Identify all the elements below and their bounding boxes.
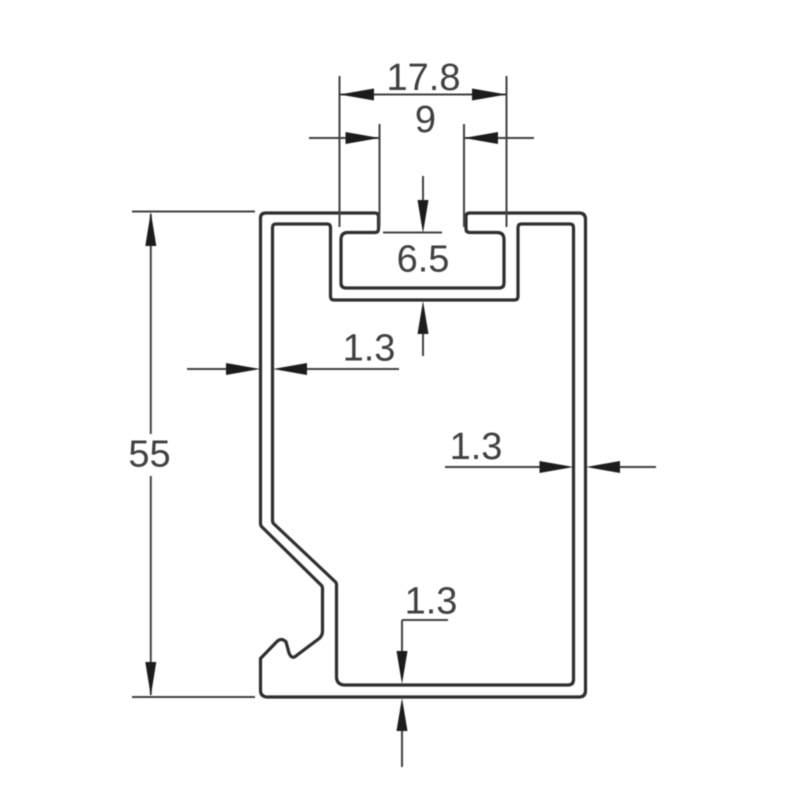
svg-text:9: 9 — [415, 99, 436, 141]
svg-text:17.8: 17.8 — [387, 57, 461, 99]
svg-text:55: 55 — [128, 434, 170, 476]
svg-text:1.3: 1.3 — [405, 581, 458, 623]
svg-text:1.3: 1.3 — [450, 426, 503, 468]
svg-text:6.5: 6.5 — [397, 239, 450, 281]
svg-text:1.3: 1.3 — [343, 328, 396, 370]
